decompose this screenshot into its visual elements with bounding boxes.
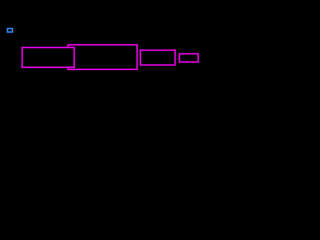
magenta box R1 fill (covers R2 left edge) [22,48,74,68]
magenta box R2 (large middle) [68,45,137,70]
magenta box R2 glow [68,45,137,70]
diagram canvas [0,0,200,113]
blue box B1 [7,29,12,33]
magenta box R3 glow [140,50,175,65]
blue box B1 glow [7,29,12,33]
magenta box R4 glow [179,54,198,62]
magenta box R1 (left) [22,48,74,68]
magenta box R4 [179,54,198,62]
magenta box R1 glow [22,48,74,68]
magenta box R3 [140,50,175,65]
